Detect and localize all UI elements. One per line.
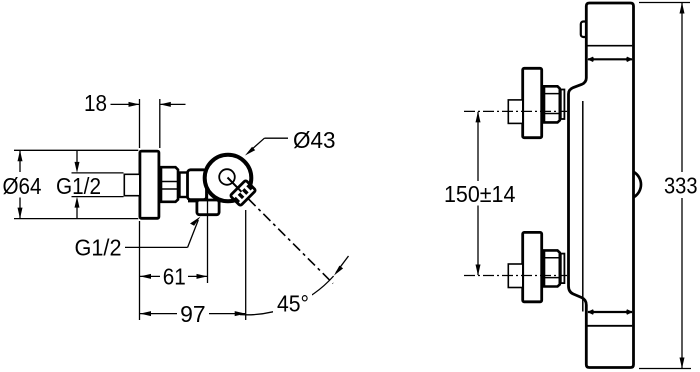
dimension 150+-14 arrow up xyxy=(477,112,479,181)
extension line 18-left (x139.5 above plate) xyxy=(139,99,141,148)
dimension G1/2 arrow down (above) xyxy=(76,150,78,162)
dimension G1/2 arrow up (below) xyxy=(76,207,78,219)
top section line xyxy=(588,45,633,47)
bottom junction line with end fillets xyxy=(588,311,632,313)
union nut facet line lower xyxy=(161,188,179,190)
svg-text:Ø43: Ø43 xyxy=(293,127,336,153)
dimension 18 line left + arrow xyxy=(111,103,140,105)
knob inner circle xyxy=(219,169,235,185)
wall escutcheon plate (side view) xyxy=(140,151,159,218)
extension line G1/2 bottom (y196.6) xyxy=(72,196,124,198)
svg-text:G1/2: G1/2 xyxy=(56,173,101,199)
svg-text:61: 61 xyxy=(163,264,186,290)
dimension 333 arrow down xyxy=(681,198,683,368)
shower hose outlet G1/2 (below body) xyxy=(197,200,219,215)
upper wall connector xyxy=(508,100,523,124)
upper nut facet line 1 xyxy=(544,93,561,95)
label 45deg background xyxy=(273,292,312,314)
svg-text:G1/2: G1/2 xyxy=(75,235,122,261)
upper nut facet line 2 xyxy=(544,113,561,115)
extension line 61-right (x207.5 through outlet) xyxy=(207,194,209,283)
leader diam43 arrow xyxy=(249,138,265,152)
leader diam43 horizontal xyxy=(264,137,288,139)
lower union ring xyxy=(561,254,565,284)
dimension 150+-14 arrow down xyxy=(477,206,479,276)
dimension 18 line right + arrow xyxy=(160,103,185,105)
svg-text:97: 97 xyxy=(180,301,206,327)
lower nut facet line 1 xyxy=(544,257,561,259)
dimension 61 line + arrows xyxy=(140,275,160,277)
dimension 333 arrow up xyxy=(681,3,683,172)
centerline lower union (dash-dot) xyxy=(464,275,567,277)
dimension diam64 arrow down xyxy=(19,198,21,219)
slider clip tab top-left xyxy=(581,22,588,38)
shower bar body outline (front view) xyxy=(569,3,634,368)
nozzle knurl band xyxy=(236,186,251,201)
upper wall escutcheon (front view) xyxy=(523,68,542,137)
extension line 97-right (x245.7) xyxy=(245,210,247,320)
dimension diam64 arrow up xyxy=(19,151,21,172)
lower wall escutcheon (front view) xyxy=(523,232,542,301)
union nut facet line upper xyxy=(161,181,179,183)
svg-text:150±14: 150±14 xyxy=(444,181,516,207)
lower nut facet line 2 xyxy=(544,277,561,279)
union nut (side view) xyxy=(161,167,178,202)
svg-text:18: 18 xyxy=(84,90,107,116)
45deg arrow at dashed line xyxy=(336,256,349,273)
extension line G1/2 top (y172.9) xyxy=(72,172,124,174)
top junction line with end fillets xyxy=(588,58,632,60)
extension line 333 bottom xyxy=(639,368,691,370)
knob handle index line xyxy=(228,178,242,192)
wall inlet connector G1/2 xyxy=(124,174,140,195)
lower wall connector xyxy=(508,264,523,288)
extension line 333 top xyxy=(639,2,690,4)
inner edge line of bar xyxy=(582,101,584,312)
bottom section line xyxy=(588,325,633,327)
svg-text:333: 333 xyxy=(664,173,698,199)
dashed 45deg axis line xyxy=(249,199,334,284)
extension line diam64 bottom (y218.6) xyxy=(14,218,138,220)
control knob circle diam43 xyxy=(205,155,252,202)
body bottom edge extension under circle xyxy=(188,200,234,203)
valve body (side view) xyxy=(188,170,207,200)
centerline upper union (dash-dot) xyxy=(464,110,567,112)
dimension 97 line + arrows xyxy=(140,313,177,315)
leader G1/2 outlet: diagonal + arrow xyxy=(188,220,199,247)
extension line diam64 top (y150.3) xyxy=(14,149,138,151)
svg-text:45°: 45° xyxy=(277,291,309,317)
neck piece between nut and body xyxy=(180,173,190,198)
upper union ring xyxy=(561,90,565,120)
svg-text:Ø64: Ø64 xyxy=(3,173,42,199)
leader G1/2 outlet: horizontal xyxy=(125,246,188,248)
45deg dimension arc xyxy=(240,276,334,315)
temperature knob bump on right edge xyxy=(634,172,641,198)
outlet nozzle at 45 deg xyxy=(230,180,256,206)
lower union nut xyxy=(544,250,560,286)
extension line 18-right (x159.8 above plate) xyxy=(159,99,161,148)
extension line 61/97-left (x139.5 below plate) xyxy=(139,221,141,320)
upper union nut xyxy=(544,86,560,122)
